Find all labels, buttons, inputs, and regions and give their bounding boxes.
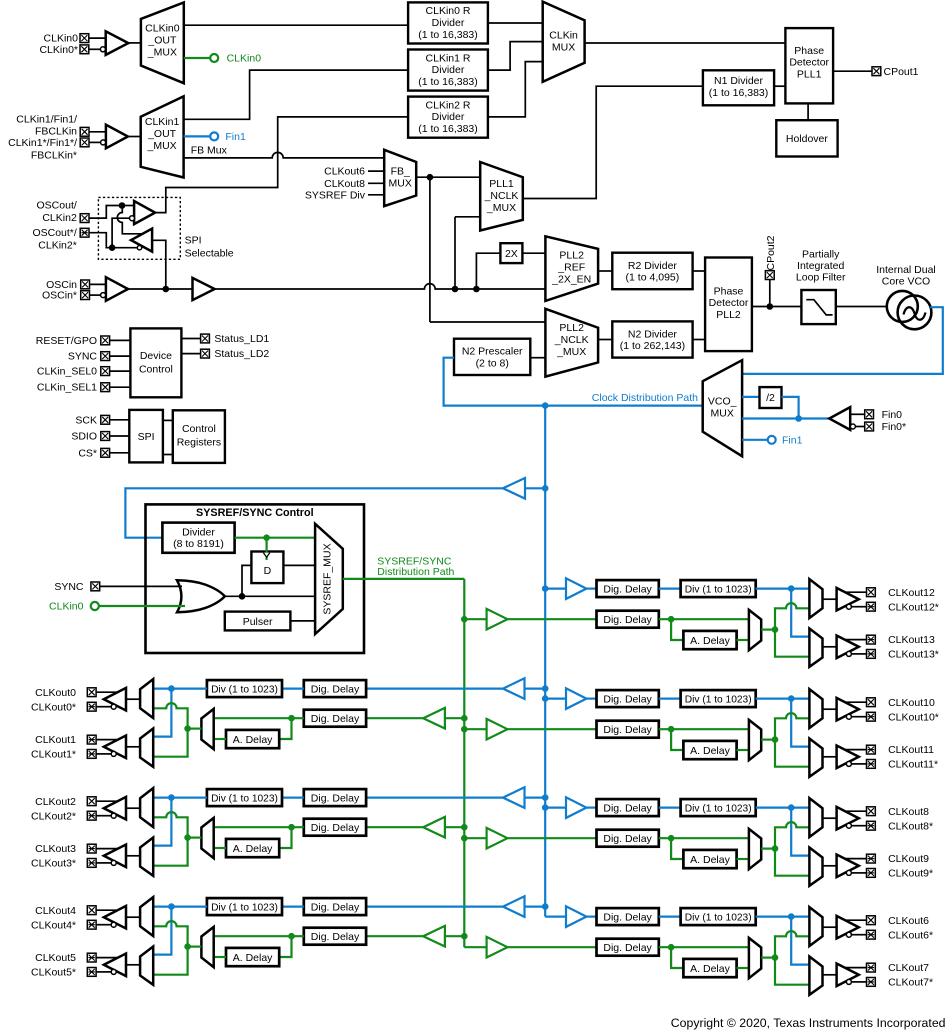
svg-text:CLKout10: CLKout10 xyxy=(888,697,935,709)
divider N2 Divider xyxy=(612,321,692,357)
svg-text:SDIO: SDIO xyxy=(71,431,97,443)
wire xyxy=(235,537,316,539)
svg-text:CLKout7: CLKout7 xyxy=(888,962,929,974)
wire xyxy=(693,339,706,341)
pin CLKout2* xyxy=(87,811,96,820)
svg-text:Dig. Delay: Dig. Delay xyxy=(311,713,360,725)
svg-text:CLKin1: CLKin1 xyxy=(145,116,180,128)
wire xyxy=(671,619,683,640)
buffer CLKout5 output driver xyxy=(104,954,126,977)
wire xyxy=(693,270,706,272)
block Dig. Delay (CLKout12 clock) xyxy=(597,580,659,597)
wire xyxy=(775,740,809,767)
wire xyxy=(659,587,681,589)
junction xyxy=(473,286,480,293)
junction xyxy=(461,835,468,842)
block SPI xyxy=(129,410,163,463)
wire xyxy=(598,339,612,341)
wire xyxy=(279,827,291,848)
wire xyxy=(464,837,486,839)
buffer CLKout2 output driver xyxy=(104,797,126,820)
pin Status_LD2 xyxy=(201,349,210,358)
divider Div (1 to 1023) (CLKout10) xyxy=(681,690,756,707)
node Fin1 net xyxy=(768,436,776,444)
wire xyxy=(153,796,207,798)
mux CLKout8 output select xyxy=(809,798,822,837)
divider CLKin1 R Divider xyxy=(408,50,488,91)
buffer CLKout2 sysref distribution xyxy=(423,817,445,838)
svg-text:CLKin0: CLKin0 xyxy=(49,601,84,613)
buffer CLKout12 sysref distribution xyxy=(487,609,508,630)
mux CLKout3 output select xyxy=(140,838,153,876)
block Dig. Delay (CLKout4 sysref) xyxy=(304,928,366,945)
svg-text:CLKout6*: CLKout6* xyxy=(888,929,933,941)
junction xyxy=(184,834,191,841)
junction xyxy=(788,913,795,920)
wire xyxy=(464,728,486,730)
pin OSCin xyxy=(81,280,90,289)
junction xyxy=(542,402,549,409)
svg-text:Dig. Delay: Dig. Delay xyxy=(603,942,652,954)
wire xyxy=(152,240,166,289)
wire xyxy=(96,909,117,911)
svg-text:PLL1: PLL1 xyxy=(797,69,822,81)
wire xyxy=(756,587,810,589)
bubble on CLKout11* output xyxy=(846,761,851,766)
svg-text:OSCin*: OSCin* xyxy=(42,290,77,302)
pin CLKout4* xyxy=(87,920,96,929)
pin CLKin_SEL0 xyxy=(101,367,110,376)
bubble on CLKout2* output xyxy=(111,813,116,818)
pin Fin0 xyxy=(865,410,874,419)
bubble on CLKout12* output xyxy=(846,604,851,609)
wire xyxy=(368,182,384,184)
wire xyxy=(368,170,384,172)
junction xyxy=(109,244,116,251)
pin CLKout8* xyxy=(867,821,876,830)
wire xyxy=(128,288,193,290)
block A. Delay (CLKout8) xyxy=(683,850,736,868)
wire xyxy=(214,826,304,828)
junction xyxy=(772,626,779,633)
block A. Delay (CLKout4) xyxy=(226,948,279,966)
wire xyxy=(89,48,101,50)
svg-text:FB_: FB_ xyxy=(391,166,410,178)
svg-text:CPout1: CPout1 xyxy=(884,66,919,78)
junction xyxy=(184,725,191,732)
wire xyxy=(752,306,802,308)
wire xyxy=(659,806,681,808)
wire Fin1 net xyxy=(184,135,211,137)
svg-text:SYNC: SYNC xyxy=(68,351,98,363)
divider N1 Divider xyxy=(703,70,774,105)
buffer OSCin distribution xyxy=(193,278,215,300)
buffer CLKout3 output driver xyxy=(104,845,126,868)
svg-text:CLKout6: CLKout6 xyxy=(888,915,929,927)
wire xyxy=(96,957,117,959)
wire with hop xyxy=(775,713,809,740)
wire xyxy=(122,205,134,207)
wire with hop xyxy=(775,931,809,958)
wire xyxy=(659,837,749,839)
svg-text:CLKout4*: CLKout4* xyxy=(31,919,76,931)
block Dig. Delay (CLKout8 sysref) xyxy=(597,830,659,847)
buffer CLKout0 sysref distribution xyxy=(423,708,445,729)
wire xyxy=(279,936,291,957)
pin Status_LD1 xyxy=(201,334,210,343)
wire xyxy=(153,689,171,737)
node OSCout*/CLKin2* pin labels xyxy=(32,227,76,252)
wire clock distribution feed xyxy=(444,358,703,406)
junction xyxy=(795,415,802,422)
svg-text:CLKout10*: CLKout10* xyxy=(888,711,939,723)
svg-text:Clock Distribution Path: Clock Distribution Path xyxy=(592,392,698,404)
wire xyxy=(756,806,810,808)
svg-text:CS*: CS* xyxy=(78,447,97,459)
wire xyxy=(112,218,129,248)
bubble on OSCout driver xyxy=(137,246,141,250)
svg-text:Div (1 to 1023): Div (1 to 1023) xyxy=(685,584,752,595)
svg-text:Div (1 to 1023): Div (1 to 1023) xyxy=(211,793,278,804)
pin CLKout8 xyxy=(867,807,876,816)
pin CPout1 xyxy=(872,67,881,76)
pin CLKout9 xyxy=(867,854,876,863)
wire xyxy=(659,946,749,948)
mux analog delay select (CLKout12) xyxy=(749,610,761,650)
svg-text:Divider: Divider xyxy=(182,526,215,538)
buffer CLKout10 sysref distribution xyxy=(487,719,508,740)
junction xyxy=(263,534,270,541)
loop filter symbol xyxy=(806,300,832,315)
svg-text:CLKin_SEL0: CLKin_SEL0 xyxy=(37,366,97,378)
wire xyxy=(110,452,130,454)
svg-text:CLKin2*: CLKin2* xyxy=(38,240,77,252)
wire xyxy=(266,538,268,560)
pin CLKout7 xyxy=(867,963,876,972)
svg-text:D: D xyxy=(264,565,272,577)
bubble on CLKout13* output xyxy=(846,651,851,656)
svg-text:Integrated: Integrated xyxy=(797,260,844,272)
bubble on CLKin2 buffer xyxy=(130,216,135,221)
wire xyxy=(737,749,749,751)
pin CLKout10 xyxy=(867,698,876,707)
wire xyxy=(852,981,867,983)
SPI Selectable label xyxy=(185,235,234,260)
mux VCO_MUX xyxy=(703,360,742,456)
pin CLKin1/Fin1/FBCLKin xyxy=(80,127,89,136)
svg-text:FBCLKin*: FBCLKin* xyxy=(31,150,77,162)
wire xyxy=(153,729,187,757)
wire xyxy=(823,708,837,710)
wire xyxy=(110,355,131,357)
bubble on CLKout6* output xyxy=(846,932,851,937)
svg-text:Dig. Delay: Dig. Delay xyxy=(603,724,652,736)
svg-text:Div (1 to 1023): Div (1 to 1023) xyxy=(211,684,278,695)
wire xyxy=(659,618,749,620)
svg-text:R2 Divider: R2 Divider xyxy=(628,260,678,272)
junction xyxy=(184,943,191,950)
svg-text:Dig. Delay: Dig. Delay xyxy=(311,901,360,913)
svg-text:2X: 2X xyxy=(505,248,518,260)
wire xyxy=(153,905,207,907)
wire xyxy=(488,22,543,24)
svg-text:CLKin0*: CLKin0* xyxy=(39,44,78,56)
svg-text:Dig. Delay: Dig. Delay xyxy=(603,614,652,626)
wire xyxy=(96,971,111,973)
wire xyxy=(823,865,837,867)
wire xyxy=(214,738,226,740)
divider Div (1 to 1023) (CLKout2) xyxy=(207,789,282,806)
wire xyxy=(110,339,131,341)
svg-text:CLKin2: CLKin2 xyxy=(42,212,77,224)
wire xyxy=(775,630,809,657)
mux CLKout11 output select xyxy=(809,739,822,777)
wire xyxy=(429,177,431,322)
wire xyxy=(89,141,101,143)
svg-text:Div (1 to 1023): Div (1 to 1023) xyxy=(685,694,752,705)
svg-text:CLKout5: CLKout5 xyxy=(35,952,76,964)
block Dig. Delay (CLKout8 clock) xyxy=(597,799,659,816)
bubble on CLKin0* input xyxy=(100,47,105,52)
wire xyxy=(852,716,867,718)
svg-text:CLKin: CLKin xyxy=(549,30,578,42)
mux analog delay select (CLKout10) xyxy=(749,720,761,760)
buffer CLKout6 clock distribution xyxy=(566,906,586,927)
mux analog delay select (CLKout6) xyxy=(749,938,761,978)
pin Fin0* xyxy=(865,422,874,431)
svg-text:Dig. Delay: Dig. Delay xyxy=(603,911,652,923)
mux CLKout13 output select xyxy=(809,629,822,667)
bubble on CLKout7* output xyxy=(846,979,851,984)
wire xyxy=(153,687,207,689)
svg-text:Divider: Divider xyxy=(432,17,465,29)
wire xyxy=(366,687,503,689)
wire xyxy=(823,756,837,758)
pin SDIO xyxy=(101,432,110,441)
wire xyxy=(366,717,423,719)
wire xyxy=(523,86,703,198)
svg-text:A. Delay: A. Delay xyxy=(233,734,273,746)
mux analog delay select (CLKout2) xyxy=(201,818,213,858)
block Dig. Delay (CLKout6 sysref) xyxy=(597,939,659,956)
junction xyxy=(542,903,549,910)
svg-text:Status_LD1: Status_LD1 xyxy=(214,333,269,345)
svg-text:(1 to 16,383): (1 to 16,383) xyxy=(418,76,478,88)
svg-text:CLKout5*: CLKout5* xyxy=(31,967,76,979)
loop filter label xyxy=(796,248,846,283)
svg-text:Selectable: Selectable xyxy=(185,248,234,260)
svg-text:Div (1 to 1023): Div (1 to 1023) xyxy=(211,902,278,913)
mux PLL2_NCLK_MUX xyxy=(545,309,598,377)
buffer CLKout0 clock distribution xyxy=(503,678,525,699)
svg-text:Phase: Phase xyxy=(714,285,744,297)
junction xyxy=(542,695,549,702)
pin CLKout13 xyxy=(867,635,876,644)
wire xyxy=(508,946,597,948)
mux CLKout12 output select xyxy=(809,579,822,618)
svg-text:Div (1 to 1023): Div (1 to 1023) xyxy=(685,912,752,923)
wire xyxy=(430,321,546,323)
svg-text:CPout2: CPout2 xyxy=(765,235,777,270)
wire xyxy=(163,419,173,421)
block Dig. Delay (CLKout2 sysref) xyxy=(304,819,366,836)
block Holdover xyxy=(776,120,837,156)
pin CLKout6* xyxy=(867,930,876,939)
junction xyxy=(772,845,779,852)
pin CLKout3* xyxy=(87,859,96,868)
divider SYSREF Divider xyxy=(162,523,234,553)
wire xyxy=(155,117,408,213)
junction xyxy=(772,736,779,743)
mux SYSREF_MUX xyxy=(315,524,343,634)
junction xyxy=(461,715,468,722)
buffer CLKout6 sysref distribution xyxy=(487,937,508,958)
svg-text:Dig. Delay: Dig. Delay xyxy=(311,792,360,804)
pin CLKout6 xyxy=(867,916,876,925)
pin CLKout2 xyxy=(87,797,96,806)
block Dig. Delay (CLKout10 sysref) xyxy=(597,721,659,738)
wire xyxy=(522,252,545,254)
wire xyxy=(163,454,173,456)
svg-text:Dig. Delay: Dig. Delay xyxy=(603,693,652,705)
wire xyxy=(737,639,749,641)
wire xyxy=(282,796,304,798)
wire xyxy=(586,915,596,917)
svg-text:Holdover: Holdover xyxy=(786,133,829,145)
bubble on CLKout4* output xyxy=(111,922,116,927)
pin OSCin* xyxy=(81,291,90,300)
wire with hop xyxy=(153,703,187,729)
wire xyxy=(659,728,749,730)
wire xyxy=(598,270,612,272)
wire xyxy=(89,233,109,248)
pin CLKout12 xyxy=(867,588,876,597)
wire xyxy=(508,728,597,730)
wire xyxy=(791,917,809,965)
wire xyxy=(464,946,486,948)
wire xyxy=(416,176,480,178)
block Dig. Delay (CLKout4 clock) xyxy=(304,898,366,915)
wire xyxy=(545,806,566,808)
wire xyxy=(214,717,304,719)
svg-text:(1 to 16,383): (1 to 16,383) xyxy=(709,87,769,99)
wire xyxy=(126,807,140,809)
wire xyxy=(225,595,316,597)
svg-text:CLKin0: CLKin0 xyxy=(227,53,262,65)
wire xyxy=(455,216,480,218)
buffer CLKin0 input xyxy=(106,31,129,55)
wire xyxy=(508,837,597,839)
wire xyxy=(791,808,809,856)
wire xyxy=(99,605,185,607)
mux CLKout2 output select xyxy=(140,788,153,827)
svg-text:_OUT: _OUT xyxy=(147,128,177,140)
block Dig. Delay (CLKout0 sysref) xyxy=(304,710,366,727)
svg-text:Core VCO: Core VCO xyxy=(882,276,930,288)
svg-text:Status_LD2: Status_LD2 xyxy=(214,348,269,360)
buffer CLKout6 output driver xyxy=(837,916,859,939)
bubble on CLKout1* output xyxy=(111,751,116,756)
wire xyxy=(761,628,775,630)
wire xyxy=(585,42,786,44)
buffer Fin0 input xyxy=(829,407,850,430)
wire xyxy=(846,639,867,641)
svg-text:MUX: MUX xyxy=(552,42,575,54)
wire xyxy=(445,826,464,828)
mux CLKin0_OUT_MUX xyxy=(141,3,184,84)
wire xyxy=(126,855,140,857)
junction xyxy=(772,954,779,961)
wire xyxy=(96,800,117,802)
wire xyxy=(823,646,837,648)
svg-text:A. Delay: A. Delay xyxy=(690,854,730,866)
divider /2 xyxy=(760,387,782,408)
svg-text:Phase: Phase xyxy=(794,45,824,57)
wire xyxy=(742,396,759,398)
wire xyxy=(846,701,867,703)
wire xyxy=(110,435,130,437)
wire xyxy=(96,739,117,741)
oscillator label xyxy=(876,264,936,288)
buffer CLKout9 output driver xyxy=(837,855,859,878)
wire with hop xyxy=(775,603,809,630)
wire xyxy=(852,763,867,765)
wire xyxy=(836,306,888,308)
svg-text:N2 Prescaler: N2 Prescaler xyxy=(462,346,523,358)
wire xyxy=(671,947,683,968)
svg-text:Fin0*: Fin0* xyxy=(882,421,907,433)
wire xyxy=(181,338,200,340)
divider CLKin2 R Divider xyxy=(408,97,488,138)
wire xyxy=(214,847,226,849)
or gate SYNC/CLKin0 xyxy=(177,580,225,612)
junction xyxy=(767,303,774,310)
bubble on CLKout3* output xyxy=(111,860,116,865)
wire xyxy=(737,967,749,969)
svg-text:Fin1: Fin1 xyxy=(782,434,803,446)
wire xyxy=(823,598,837,600)
divider CLKin0 R Divider xyxy=(408,2,488,43)
svg-text:CLKout3: CLKout3 xyxy=(35,843,76,855)
wire xyxy=(445,935,464,937)
mux PLL1_NCLK_MUX xyxy=(480,162,523,231)
wire xyxy=(791,699,809,747)
buffer OSCout driver (SPI selectable) xyxy=(131,229,152,252)
wire sysref distribution vertical xyxy=(463,579,465,947)
wire xyxy=(153,947,187,975)
bubble on CLKout10* output xyxy=(846,714,851,719)
wire xyxy=(823,817,837,819)
wire xyxy=(775,958,809,985)
buffer CLKin2 input (SPI selectable) xyxy=(134,201,155,224)
junction xyxy=(163,286,170,293)
buffer CLKin1 input xyxy=(106,125,128,149)
svg-text:Registers: Registers xyxy=(177,437,221,449)
svg-text:(2 to 8): (2 to 8) xyxy=(476,357,509,369)
pin CLKin_SEL1 xyxy=(101,383,110,392)
svg-text:_MUX: _MUX xyxy=(147,47,177,59)
wire xyxy=(823,974,837,976)
wire xyxy=(846,591,867,593)
node OSCout/CLKin2 pin labels xyxy=(37,199,77,223)
buffer CLKout4 sysref distribution xyxy=(423,926,445,947)
svg-text:CLKin1/Fin1/: CLKin1/Fin1/ xyxy=(16,114,77,126)
divider Div (1 to 1023) (CLKout6) xyxy=(681,908,756,925)
pin CPout2 xyxy=(765,271,774,280)
svg-text:PLL1: PLL1 xyxy=(489,178,514,190)
wire xyxy=(90,294,101,296)
wire xyxy=(823,926,837,928)
